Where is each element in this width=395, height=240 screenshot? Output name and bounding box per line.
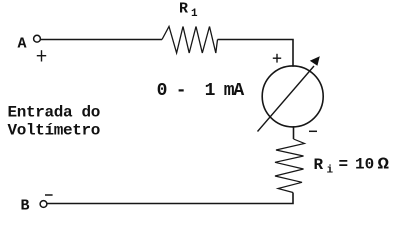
svg-text:Voltímetro: Voltímetro — [8, 122, 101, 140]
svg-text:R: R — [179, 1, 188, 18]
terminal B — [40, 201, 47, 208]
meter needle — [258, 66, 315, 132]
svg-text:B: B — [21, 197, 30, 214]
terminal A — [34, 35, 41, 42]
svg-text:=: = — [339, 156, 349, 174]
meter M1 (0-1 mA movement) — [262, 66, 323, 127]
polarity + at meter — [273, 54, 281, 63]
polarity - at B — [45, 194, 53, 196]
wire Ri to bottom rail — [47, 193, 293, 204]
label Ri = 10 ohm — [314, 155, 390, 176]
svg-text:10: 10 — [355, 155, 374, 173]
resistor R1 — [162, 27, 218, 54]
svg-text:Ω: Ω — [378, 156, 390, 175]
svg-text:Entrada do: Entrada do — [8, 104, 101, 122]
label R1 — [179, 1, 198, 21]
polarity - at meter — [309, 130, 317, 132]
svg-text:0 - 1 mA: 0 - 1 mA — [157, 81, 245, 101]
resistor Ri — [275, 139, 305, 193]
polarity + at A — [37, 50, 46, 61]
label Entrada do Voltimetro — [8, 104, 101, 140]
wire meter to Ri — [293, 126, 295, 139]
wire R1 to meter (top corner) — [218, 40, 294, 67]
svg-text:1: 1 — [191, 8, 198, 20]
needle arrowhead — [310, 56, 320, 66]
svg-text:A: A — [18, 35, 27, 52]
svg-text:R: R — [314, 156, 324, 174]
wire A to R1 — [41, 39, 162, 41]
svg-text:i: i — [327, 165, 334, 177]
